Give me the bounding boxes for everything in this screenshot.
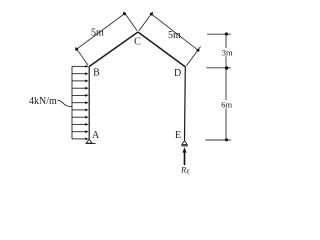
svg-text:3m: 3m [222,47,233,57]
svg-text:A: A [92,130,100,141]
svg-text:C: C [134,37,141,48]
svg-text:4kN/m: 4kN/m [29,96,57,107]
svg-text:B: B [93,68,100,79]
svg-text:6m: 6m [221,100,232,110]
svg-text:5m: 5m [168,30,181,41]
svg-text:E: E [175,130,181,141]
svg-text:D: D [174,68,181,79]
svg-text:5m: 5m [91,28,104,39]
